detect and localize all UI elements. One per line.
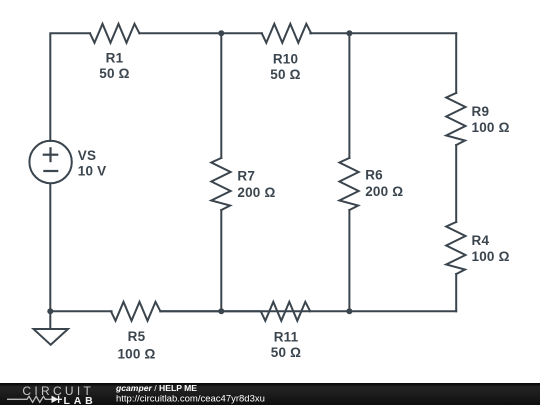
svg-text:200 Ω: 200 Ω (365, 184, 403, 199)
svg-text:R11: R11 (274, 330, 299, 345)
svg-text:100 Ω: 100 Ω (472, 120, 510, 135)
svg-text:R9: R9 (472, 104, 490, 119)
svg-text:100 Ω: 100 Ω (472, 249, 510, 264)
svg-text:50 Ω: 50 Ω (99, 66, 129, 81)
svg-text:R10: R10 (273, 52, 298, 67)
svg-text:50 Ω: 50 Ω (271, 345, 301, 360)
svg-text:R4: R4 (472, 233, 490, 248)
svg-text:10 V: 10 V (78, 164, 107, 179)
svg-text:http://circuitlab.com/ceac47yr: http://circuitlab.com/ceac47yr8d3xu (116, 393, 265, 404)
svg-text:R1: R1 (106, 51, 124, 66)
svg-text:gcamper / HELP ME: gcamper / HELP ME (115, 383, 197, 393)
svg-text:LAB: LAB (64, 395, 97, 405)
svg-text:100 Ω: 100 Ω (117, 347, 155, 362)
svg-text:50 Ω: 50 Ω (270, 67, 300, 82)
svg-text:VS: VS (78, 148, 96, 163)
svg-text:R7: R7 (237, 169, 255, 184)
svg-text:200 Ω: 200 Ω (237, 185, 275, 200)
svg-text:R6: R6 (365, 168, 383, 183)
svg-text:R5: R5 (128, 329, 146, 344)
